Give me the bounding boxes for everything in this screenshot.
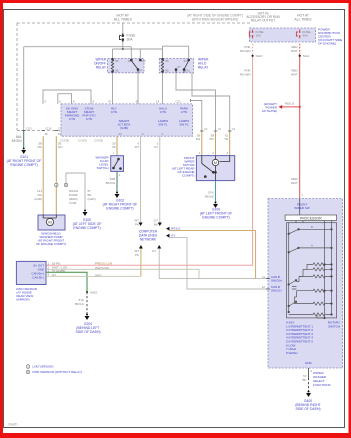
wire wiper motor to ground G100 [215, 181, 217, 202]
svg-text:ALL TIMES: ALL TIMES [114, 18, 133, 22]
module title [294, 203, 310, 211]
svg-text:8 WASH: 8 WASH [286, 351, 297, 355]
data line arrow up 2 [157, 245, 161, 249]
svg-text:SWITCH: SWITCH [97, 166, 109, 170]
svg-text:C270E: C270E [94, 139, 103, 143]
svg-text:PK: PK [135, 253, 139, 257]
SJB top jumper inner [58, 94, 72, 104]
svg-text:14: 14 [156, 100, 160, 104]
svg-text:86: 86 [166, 59, 170, 63]
ground G204 symbol [85, 314, 90, 321]
svg-text:30A: 30A [127, 38, 134, 42]
rain sensor interior pin names [32, 263, 45, 279]
wire SJB to washer pump B lower [55, 187, 57, 215]
svg-text:BK/LG: BK/LG [75, 302, 85, 306]
svg-text:BK/LB: BK/LB [205, 195, 214, 199]
svg-text:C270A: C270A [78, 139, 87, 143]
splice dot on green ground wire [86, 291, 88, 293]
wire rain sensor pin4 GY [46, 275, 141, 277]
splice S110 dot [252, 55, 254, 57]
power distribution center label [318, 28, 342, 46]
rotary switch inner box [287, 223, 337, 318]
version circle 2 [64, 183, 67, 187]
svg-text:87: 87 [140, 69, 144, 73]
wire label 56B BK/GN [106, 177, 115, 185]
svg-text:PROCESSOR: PROCESSOR [300, 216, 322, 220]
wire BK/GN to ground G101 [23, 131, 25, 149]
wire labels mid B [69, 189, 78, 205]
inner left bus [288, 223, 290, 312]
boundary crossing ticks on pump wires [42, 130, 59, 132]
data line wire 1 label [134, 219, 139, 227]
relay K2 box [159, 58, 193, 72]
svg-text:RD-WH: RD-WH [240, 73, 250, 77]
svg-text:OF ENGINE): OF ENGINE) [318, 42, 336, 46]
wire label RED/WHT lower [291, 177, 299, 185]
data line wire 2 label [154, 219, 158, 227]
SJB title [117, 119, 130, 130]
wire relay K1 coil 85 to SJB pin [112, 73, 114, 104]
wiper motor park switch [202, 156, 230, 181]
svg-text:GND: GND [305, 361, 313, 365]
wire label RED/WHT mid [291, 69, 299, 77]
module pin A name [271, 275, 282, 283]
svg-text:DG: DG [196, 137, 201, 141]
svg-text:GRY: GRY [95, 274, 101, 278]
switch rung 2 [288, 247, 332, 253]
relay K1 coil [111, 58, 113, 72]
wiper washer switch module box [268, 199, 343, 368]
svg-text:85: 85 [166, 69, 170, 73]
svg-text:RELAY: RELAY [198, 66, 209, 70]
data line arrow down 2 [158, 223, 162, 227]
svg-text:WHT: WHT [291, 181, 298, 185]
svg-text:SW FL: SW FL [179, 123, 188, 127]
smart junction box SJB [61, 104, 193, 136]
washer fluid level switch label [95, 156, 109, 171]
engine compartment dashed boundary bottom-left segment [17, 130, 61, 132]
branch wire label RD/LG [285, 102, 295, 106]
svg-text:GY: GY [152, 249, 156, 253]
svg-text:GN: GN [58, 145, 63, 149]
svg-text:(WITH RAIN SENSOR WIPERS): (WITH RAIN SENSOR WIPERS) [192, 18, 239, 22]
module right select label [313, 371, 331, 387]
fuse F3 symbol [296, 30, 300, 39]
svg-text:87: 87 [178, 65, 182, 69]
ground G400 symbol [306, 391, 311, 398]
svg-text:ENGINE COMPT): ENGINE COMPT) [10, 163, 37, 167]
wire fuse to bus junction [122, 42, 124, 49]
svg-text:BK: BK [302, 378, 306, 382]
svg-text:24a2h: 24a2h [8, 423, 18, 427]
data line wire 1 lower to left [140, 249, 142, 277]
selector switch low [288, 301, 297, 307]
network arrow label GY [171, 234, 175, 238]
svg-text:C113: C113 [26, 126, 33, 130]
wire red from fuse F3 down to module [299, 42, 301, 199]
rain sensor box [16, 261, 46, 284]
svg-text:SHLD(+): SHLD(+) [271, 278, 282, 282]
resistor rung 2 [303, 268, 332, 277]
ground G100 symbol [213, 202, 218, 209]
svg-text:30: 30 [184, 59, 188, 63]
svg-text:12: 12 [262, 285, 266, 289]
svg-text:WHT/LGN: WHT/LGN [95, 266, 109, 270]
svg-text:11: 11 [262, 275, 265, 279]
red wire dashed section [299, 42, 301, 56]
svg-text:RELAY OUTPUT: RELAY OUTPUT [251, 19, 275, 23]
svg-text:RHD VERSION (WITHOUT RELAY): RHD VERSION (WITHOUT RELAY) [33, 370, 83, 374]
svg-text:COMPT): COMPT) [182, 174, 194, 178]
network wire tan from arrow to right column [170, 231, 256, 279]
wire pink from fuse F2 down [46, 42, 253, 265]
svg-text:OG: OG [37, 145, 42, 149]
svg-text:RD-WH: RD-WH [240, 49, 250, 53]
svg-text:CTN: CTN [111, 110, 117, 114]
wire relay K2 87 to wiper motor pin 1 [176, 73, 216, 131]
washer fluid level switch contacts [113, 158, 122, 169]
svg-text:WT/LG: WT/LG [171, 227, 181, 231]
connector ticks on wiper motor feed wires [200, 130, 231, 132]
wire label PK/RD-WH lower [240, 69, 250, 77]
wire module to ground solid part [308, 368, 310, 378]
SJB top jumper outer [43, 90, 91, 104]
wire label 57 BK [302, 374, 306, 382]
washer fluid level switch box [111, 156, 124, 172]
data line wire 2 lower to module pin A [159, 249, 268, 279]
washer pump motor symbol [43, 215, 56, 226]
boundary crossing labels [26, 126, 65, 130]
svg-text:23: 23 [119, 132, 123, 136]
svg-text:SIDE OF DASH): SIDE OF DASH) [75, 330, 100, 334]
wire pin1 labels [52, 261, 112, 265]
legend item 2 [26, 370, 82, 374]
data line pin wire labels [112, 142, 159, 150]
processor stubs [296, 221, 303, 223]
wire pin4 labels [52, 273, 101, 278]
wire module feed to processor [299, 199, 301, 216]
branch wire red with left arrow [279, 105, 301, 109]
junction dot on relay supply bus [122, 48, 124, 50]
svg-text:MIRROR): MIRROR) [16, 298, 29, 302]
fuse F3 label [303, 30, 311, 38]
branch destination label [262, 102, 278, 113]
wire SJB to washer pump A [42, 136, 44, 215]
module pin A number [262, 275, 266, 289]
connector tick C201 on left wire [22, 130, 26, 132]
svg-text:(SJB): (SJB) [120, 126, 128, 130]
ground G400 label [295, 399, 320, 411]
SJB interior texts left [65, 107, 80, 122]
svg-text:M: M [214, 161, 217, 165]
svg-text:WHT: WHT [291, 49, 298, 53]
resistor rung 4 [297, 289, 333, 297]
svg-text:C136: C136 [69, 201, 77, 205]
resistor rung 1 [307, 263, 332, 270]
svg-text:86: 86 [116, 59, 120, 63]
ground wire dashed BK/LG [86, 292, 88, 314]
wire from battery feed down to fuse [122, 23, 124, 33]
splice S111 dot [299, 55, 301, 57]
ground G204 label [75, 322, 100, 334]
svg-text:PRESS LGN: PRESS LGN [95, 261, 112, 265]
svg-text:GY: GY [171, 234, 175, 238]
ground wire label [75, 298, 85, 306]
svg-text:CTN: CTN [160, 110, 166, 114]
svg-text:BK/GN: BK/GN [106, 181, 115, 185]
wire label RED/WHT upper [291, 45, 299, 53]
wire label PK/RD-WH upper [240, 45, 250, 53]
wiper motor feed wire labels [196, 134, 229, 142]
header HOT IN ACC OR RUN [246, 12, 280, 23]
fuse F1 symbol [120, 33, 124, 42]
wire pin2 labels [52, 265, 109, 270]
ground G102 label [103, 199, 138, 211]
data line lower label 1 [134, 249, 139, 257]
wire relay K2 87a to wiper motor pin 3 [192, 73, 230, 131]
relay K2 switch [175, 59, 190, 73]
relay supply bus wire [113, 48, 163, 50]
svg-text:ENGINE COMPT): ENGINE COMPT) [202, 216, 229, 220]
wiper motor box [196, 156, 234, 181]
module pin B tick [266, 288, 270, 290]
fuse F2 label [256, 30, 264, 38]
svg-text:PK: PK [135, 223, 139, 227]
wire labels mid C [88, 189, 96, 201]
relay K1 pin labels [116, 59, 147, 73]
svg-text:WT: WT [209, 137, 214, 141]
data line arrow up 1 [139, 245, 143, 249]
svg-text:15: 15 [58, 132, 62, 136]
svg-text:A: A [311, 243, 313, 247]
svg-text:LIFTGATE): LIFTGATE) [262, 109, 277, 113]
wire rain sensor pin2 WT/LG [46, 269, 199, 278]
switch rung 1 [288, 229, 332, 235]
relay K2 label [198, 58, 209, 70]
svg-text:SIDE OF DASH): SIDE OF DASH) [295, 407, 320, 411]
fuse F2 symbol [249, 30, 253, 39]
svg-text:WIPER SW: WIPER SW [294, 206, 310, 210]
wire rain sensor pin3 GND green [46, 272, 87, 292]
washer pump motor label [36, 232, 66, 247]
network arrow left 1 [166, 227, 170, 231]
label HOT AT ALL TIMES [114, 14, 133, 22]
svg-text:GY: GY [154, 145, 158, 149]
relay K1 switch [130, 59, 141, 73]
network arrow left 2 [166, 234, 170, 238]
wire bus to relay K1 coil [112, 49, 114, 58]
relay K2 jumper coil to switch common [163, 46, 189, 58]
svg-text:LHD VERSION: LHD VERSION [33, 365, 54, 369]
wire label BK [205, 191, 214, 199]
relay K2 coil [161, 58, 163, 72]
wire SJB to washer fluid switch [116, 136, 118, 156]
SJB interior texts mid [111, 107, 117, 115]
svg-text:CTN: CTN [69, 117, 75, 121]
wire pin3 labels [52, 269, 66, 273]
svg-text:CTN: CTN [86, 117, 92, 121]
relay K2 pin labels [166, 59, 191, 73]
module position list [286, 321, 313, 355]
splice S110 label [256, 54, 263, 58]
ground G101 symbol [21, 148, 26, 155]
washer pump motor box [38, 215, 65, 230]
svg-text:ALL TIMES: ALL TIMES [294, 18, 312, 22]
svg-text:47: 47 [108, 100, 112, 104]
svg-text:(LHD): (LHD) [88, 197, 96, 201]
svg-text:SW FL: SW FL [158, 123, 167, 127]
svg-text:CTN: CTN [181, 110, 187, 114]
SJB interior texts right [158, 107, 168, 127]
SJB bottom pin labels [45, 132, 164, 136]
svg-text:C22: C22 [176, 100, 182, 104]
connector designators under SJB [60, 139, 103, 143]
engine compartment dashed boundary top [17, 22, 250, 24]
engine compartment dashed boundary left [16, 23, 18, 131]
ground G100 left symbol [83, 210, 88, 217]
SJB pin number labels top [45, 100, 182, 104]
ground G100 label [200, 208, 233, 220]
wire washer fluid switch to ground G102 [116, 171, 118, 192]
svg-text:NETWORK: NETWORK [140, 238, 157, 242]
svg-text:43: 43 [136, 100, 140, 104]
svg-text:WT: WT [135, 145, 140, 149]
svg-text:YE: YE [224, 137, 228, 141]
svg-text:OF ENGINE COMPT): OF ENGINE COMPT) [36, 242, 66, 246]
svg-text:CAN B(-): CAN B(-) [32, 275, 44, 279]
svg-text:S111: S111 [303, 54, 310, 58]
wire SJB top pin to wiper motor pin 2 [191, 101, 202, 132]
svg-text:ENGINE COMPT): ENGINE COMPT) [73, 226, 100, 230]
network arrow label WT/LG [171, 227, 181, 231]
svg-text:S402: S402 [90, 290, 97, 294]
computer data lines label [139, 230, 158, 242]
splice S111 label [303, 54, 310, 58]
svg-text:GY: GY [52, 273, 56, 277]
rain sensor pin numbers [48, 261, 50, 276]
processor box [285, 215, 337, 221]
engine compartment note [187, 14, 243, 22]
wire labels mid left A [34, 189, 43, 201]
svg-text:ENGINE COMPT): ENGINE COMPT) [106, 207, 133, 211]
svg-text:87a: 87a [185, 69, 190, 73]
resistor rung 3 [297, 275, 333, 282]
svg-text:BK/GN: BK/GN [12, 139, 23, 143]
ground G102 symbol [115, 192, 120, 199]
svg-text:C2: C2 [218, 127, 222, 131]
svg-text:30A: 30A [303, 34, 308, 38]
legend item 1 [26, 365, 53, 369]
long ground loop wire: top run [24, 46, 132, 48]
wire label 56A BK/GN [12, 135, 23, 143]
relay K1 box [108, 58, 145, 72]
wire bus to relay K1 87a [139, 49, 141, 58]
svg-text:10A: 10A [256, 34, 261, 38]
wiper motor feed pin numbers [199, 151, 229, 155]
SJB interior texts left2 [82, 107, 96, 122]
module rotary switch label [328, 321, 340, 329]
long ground loop wire to relay K1 pin30: right leg [130, 47, 132, 59]
wire version2 to ground G100 [66, 173, 85, 210]
svg-text:C136: C136 [45, 126, 52, 130]
power distribution center box [250, 28, 316, 42]
data line arrow down 1 [139, 223, 143, 227]
svg-text:(LHD): (LHD) [34, 197, 42, 201]
svg-text:C2: C2 [204, 127, 208, 131]
wire label GRN pump B [58, 142, 63, 150]
header HOT AT ALL TIMES right [294, 14, 312, 22]
wire label ORG pump A [37, 142, 42, 150]
module pin A tick [266, 278, 270, 280]
svg-text:SWITCH: SWITCH [328, 324, 340, 328]
svg-text:87a: 87a [141, 59, 146, 63]
wiper motor M symbol [212, 156, 218, 169]
data line lower label 2 [152, 249, 156, 253]
selector switch mid [288, 280, 297, 290]
module top pin label [302, 194, 304, 198]
svg-text:S110: S110 [256, 54, 263, 58]
wiper motor label [172, 156, 195, 178]
svg-text:16: 16 [45, 132, 49, 136]
SJB interior texts right2 [179, 107, 189, 127]
svg-text:C2: C2 [232, 127, 236, 131]
module pin B name [271, 285, 282, 293]
svg-text:BK: BK [154, 223, 158, 227]
svg-text:FUNCTIONS: FUNCTIONS [313, 383, 331, 387]
svg-text:M: M [48, 220, 51, 225]
long ground loop wire: left leg down [23, 47, 25, 131]
rain sensor label [16, 287, 38, 302]
version circle 1 [55, 183, 58, 187]
resistor rung 5 [295, 297, 333, 305]
connector labels on feed wires [204, 127, 236, 131]
svg-text:SHLD(-): SHLD(-) [271, 289, 282, 293]
svg-text:YE: YE [112, 145, 116, 149]
relay K1 label [94, 58, 107, 70]
inner right bus B [331, 221, 333, 315]
data line wire 2 upper [159, 136, 161, 222]
svg-text:RELAY: RELAY [96, 66, 107, 70]
wire relay K1 87 to SJB pin 47 [137, 73, 139, 104]
inner right bus A [324, 221, 326, 318]
ground G100 left label [73, 218, 102, 230]
network wire gray from arrow to module pin B [170, 238, 268, 289]
svg-text:RD/LG: RD/LG [285, 102, 295, 106]
wire SJB to washer pump B upper [55, 136, 57, 183]
wire relay K2 coil 85 to SJB pin [162, 73, 164, 104]
wire module ground dashed part [308, 378, 310, 391]
svg-text:WHT: WHT [291, 73, 298, 77]
ground G101 label [7, 155, 42, 167]
wire bus to relay K2 coil [162, 49, 164, 58]
svg-text:B: B [311, 225, 313, 229]
data line wire 1 upper [140, 136, 142, 222]
pink wire dashed section [252, 42, 254, 56]
washer fluid switch pin numbers [113, 151, 121, 177]
splice label S402 [90, 290, 97, 294]
resistor rung 6 [288, 311, 332, 319]
svg-text:85: 85 [116, 69, 120, 73]
fuse F1 value label [127, 34, 137, 42]
